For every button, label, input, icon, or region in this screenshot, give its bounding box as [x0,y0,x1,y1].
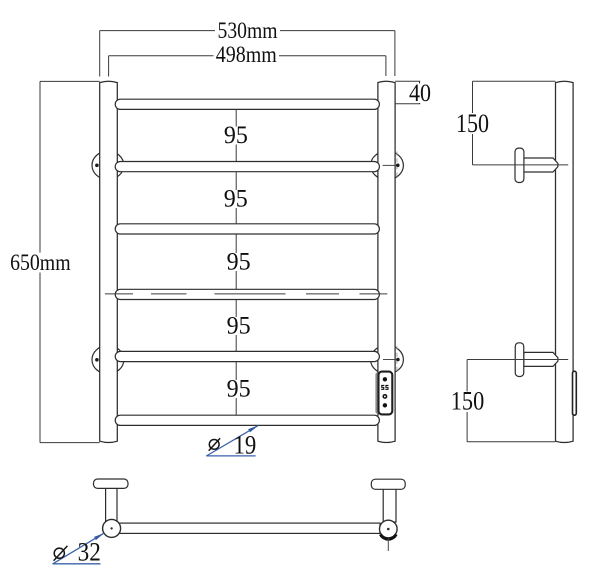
svg-text:95: 95 [227,249,251,276]
diameter symbol ø32 [54,546,68,561]
label 650mm [8,253,73,273]
bottom view right circle center dot [387,528,390,531]
label 95 gap4 [226,317,252,335]
label 530mm [215,22,280,41]
bottom view right circle dark arc [380,534,396,539]
bottom view left circle [103,519,121,537]
dimension 150 bottom (side view) [467,360,555,442]
wall mount circle bottom-right [371,345,404,374]
svg-text:95: 95 [224,186,248,213]
bar 5 [115,351,379,361]
bar 3 [115,224,379,234]
bottom view left circle center dot [110,527,112,529]
svg-text:530mm: 530mm [218,18,278,43]
svg-text:32: 32 [78,538,101,567]
right rail (front view) [378,81,395,442]
side view rail [556,81,574,442]
side view bottom bracket arm [524,352,558,366]
screw line top-right circle [383,164,398,166]
bottom view right wall plate [371,479,405,489]
side view top bracket plate [515,148,524,182]
label 95 gap2 [223,190,249,208]
bottom view left post [106,487,117,521]
leader ø32 underline [53,563,101,565]
bottom view right post [383,488,396,522]
dimension chain 95 [235,104,237,420]
bottom view right circle stub line [387,538,389,551]
bottom view bar [118,523,380,533]
svg-text:95: 95 [227,313,251,340]
label 498mm [214,47,280,65]
diameter symbol ø19 [209,438,220,451]
screw dot top-left circle [95,164,99,168]
bar 2 [115,162,379,172]
wall mount circle top-left [92,151,124,179]
side view bottom bracket centerline [467,359,568,361]
wall mount circle top-right [371,151,404,180]
leader ø19 arrowhead [248,425,258,432]
dimension 40 [395,81,420,104]
bar 6 [115,415,379,425]
screw dot bottom-right circle [396,358,400,362]
svg-text:150: 150 [451,386,484,416]
panel button 2 [383,395,386,398]
leader ø32 arrowhead [94,533,104,540]
side view top bracket centerline [473,164,569,166]
dimension line 530mm [100,31,395,77]
leader ø19 underline [206,455,255,457]
svg-text:95: 95 [224,122,248,149]
side view control panel edge [573,371,577,415]
screw dot top-right circle [396,164,400,168]
svg-text:95: 95 [227,376,251,403]
label 95 gap3 [226,253,252,271]
leader ø32 line [53,533,104,564]
screw line bottom-right circle [383,359,398,361]
dimension 150 top (side view) [473,81,556,165]
bottom view left wall plate [94,479,129,488]
panel button 1 [383,377,387,381]
label 95 gap5 [226,380,252,398]
control panel [379,372,393,415]
left rail (front view) [100,81,118,442]
svg-text:19: 19 [234,430,257,459]
control panel shadow band [375,372,379,413]
label 95 gap1 [223,127,249,145]
label 150 top [455,113,491,134]
side view bottom bracket plate [515,343,524,377]
screw dot bottom-left circle [95,358,99,362]
dimension line 498mm [109,56,386,77]
leader ø19 line [206,426,258,456]
screw axis dashes bottom-right [396,346,398,374]
panel button 3 [383,403,387,407]
bar 4 dashed centerline [105,293,387,295]
screw axis dashes top-right [396,152,398,180]
svg-text:498mm: 498mm [216,42,277,67]
svg-text:40: 40 [409,80,431,107]
svg-text:650mm: 650mm [10,250,71,275]
label 40 [407,84,433,104]
svg-text:150: 150 [456,108,489,138]
bottom view right circle [380,520,398,538]
bar 1 [115,99,379,109]
bar 4 [115,289,379,299]
panel display 55 [381,385,388,390]
wall mount circle bottom-left [92,346,124,374]
side view top bracket arm [524,158,558,172]
label 150 bottom [449,392,486,413]
dimension line 650mm [40,81,100,442]
